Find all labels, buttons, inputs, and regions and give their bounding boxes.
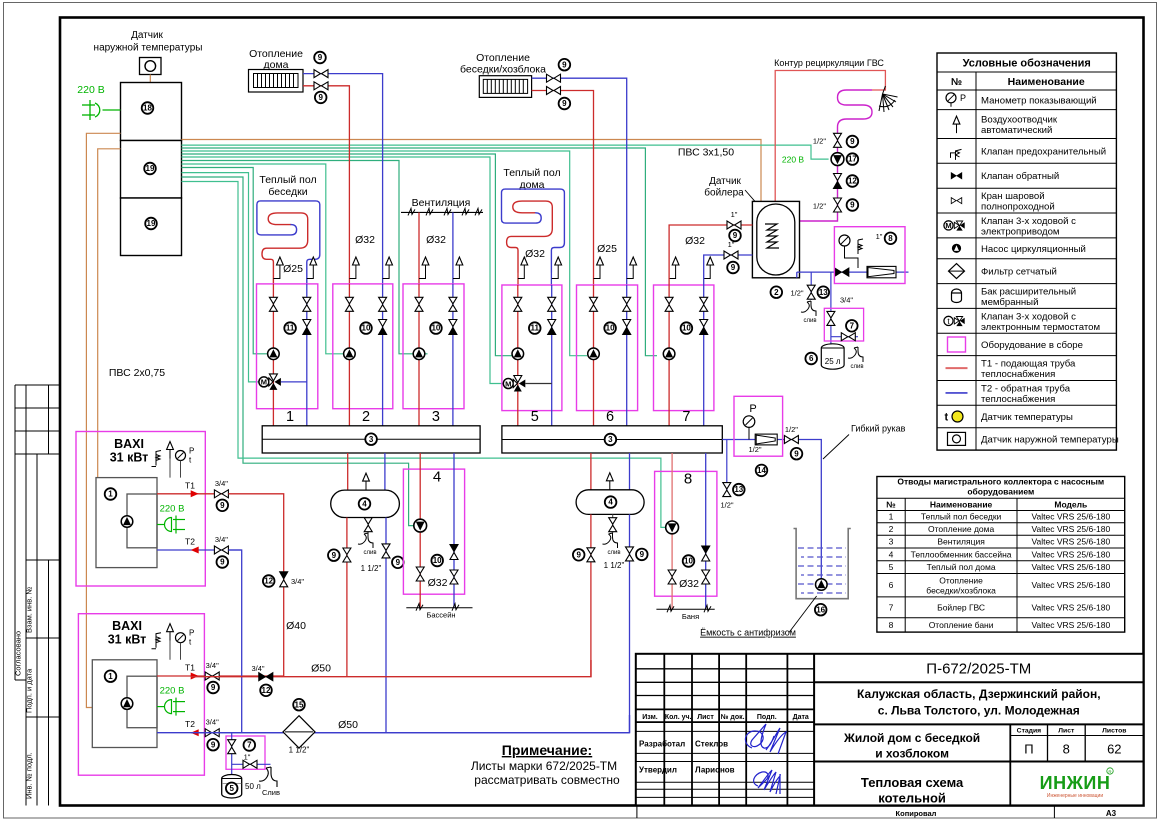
drain stub with valve 13 <box>726 440 728 498</box>
recirc check valve <box>834 174 842 189</box>
right oval return down <box>629 514 631 732</box>
title block stamp headers <box>642 713 809 721</box>
group 3 return valve <box>449 297 457 311</box>
svg-text:Тепловая схема: Тепловая схема <box>861 775 964 790</box>
expansion tank line <box>830 272 832 345</box>
svg-text:6: 6 <box>889 580 894 590</box>
legend sym: клапан 3-х ходовой с термостатом <box>944 316 965 326</box>
right oval supply valve <box>587 548 595 562</box>
recirculation pump <box>831 153 844 166</box>
pos 17 <box>847 153 859 165</box>
svg-text:5: 5 <box>229 784 234 793</box>
svg-text:3: 3 <box>608 435 613 444</box>
svg-text:M: M <box>505 379 511 388</box>
pos 16 <box>815 604 827 616</box>
cable to 3-way valve group 1 <box>182 173 260 382</box>
svg-text:9: 9 <box>211 740 216 749</box>
valve on house radiator supply <box>314 82 328 90</box>
svg-text:3: 3 <box>889 537 894 547</box>
svg-text:беседки: беседки <box>268 186 307 198</box>
svg-text:Насос циркуляционный: Насос циркуляционный <box>981 244 1086 255</box>
legend sym: клапан предохранительный <box>951 149 962 160</box>
svg-text:7: 7 <box>889 602 894 612</box>
svg-text:Ø50: Ø50 <box>311 663 331 675</box>
group 5 3-way valve with M drive <box>503 376 525 392</box>
cable to pump group 8 <box>182 182 667 528</box>
group 7 return pipe <box>703 285 705 426</box>
svg-text:Баня: Баня <box>682 612 699 621</box>
svg-text:Дата: Дата <box>793 714 809 721</box>
pos 12 Ø40 <box>263 575 275 587</box>
svg-text:Valtec VRS 25/6-180: Valtec VRS 25/6-180 <box>1031 580 1110 590</box>
ИНЖИН logo <box>1040 768 1114 799</box>
svg-text:Valtec VRS 25/6-180: Valtec VRS 25/6-180 <box>1031 620 1110 630</box>
BAXI boiler 2 T1 pipe <box>157 675 284 677</box>
BAXI boiler 1 air vent <box>169 459 171 478</box>
svg-text:Фильтр сетчатый: Фильтр сетчатый <box>981 267 1057 278</box>
svg-text:P: P <box>749 403 756 415</box>
legend sym: манометр <box>946 93 966 107</box>
svg-text:7: 7 <box>682 409 690 425</box>
drain symbol (слив) <box>801 301 816 316</box>
BAXI boiler 1 safety valve <box>152 451 162 467</box>
left stamp column grid <box>15 385 60 806</box>
svg-text:Лист: Лист <box>697 714 714 721</box>
antifreeze pump <box>816 579 828 591</box>
cable to pump group 2 <box>182 164 344 354</box>
svg-text:Согласовано: Согласовано <box>14 631 23 676</box>
svg-text:Отопление: Отопление <box>939 576 983 586</box>
svg-text:Слив: Слив <box>262 788 280 797</box>
svg-text:9: 9 <box>640 550 645 559</box>
pos 9 T1 boiler 1 <box>217 500 229 512</box>
group 2 check valve <box>379 320 387 335</box>
svg-text:14: 14 <box>757 466 766 475</box>
svg-text:9: 9 <box>576 550 581 559</box>
svg-text:9: 9 <box>332 551 337 560</box>
cable to pump group 4 <box>182 177 415 526</box>
valve on line to tank <box>784 436 798 444</box>
svg-text:t: t <box>945 412 949 424</box>
svg-text:220 В: 220 В <box>160 686 185 697</box>
svg-text:1 1/2": 1 1/2" <box>289 746 310 755</box>
svg-text:11: 11 <box>286 324 295 333</box>
antifreeze tank <box>794 529 851 599</box>
svg-text:3: 3 <box>369 435 374 444</box>
svg-text:1/2": 1/2" <box>813 202 826 211</box>
svg-text:10: 10 <box>606 324 615 333</box>
svg-text:31 кВт: 31 кВт <box>110 451 149 465</box>
pos 9 house radiator top <box>314 52 326 64</box>
svg-text:№: № <box>886 500 896 510</box>
svg-text:3/4": 3/4" <box>215 479 228 488</box>
svg-text:12: 12 <box>848 177 857 186</box>
recirculation coil (magenta) <box>838 90 873 133</box>
svg-text:Valtec VRS 25/6-180: Valtec VRS 25/6-180 <box>1031 512 1110 522</box>
cable to pump group 5 <box>182 154 512 356</box>
group 7 pump <box>663 348 675 360</box>
orange cable to ГВС boiler sensor <box>182 140 762 202</box>
ПВС 3х1,50 cable to recirculation pump <box>182 145 829 159</box>
pos 10 group 4 <box>431 555 443 567</box>
svg-text:Подп.: Подп. <box>757 714 777 721</box>
pump group 8 box <box>655 471 717 596</box>
floor coil gazebo (blue) <box>257 201 320 284</box>
svg-text:12: 12 <box>264 577 273 586</box>
svg-text:Ø32: Ø32 <box>428 577 448 589</box>
svg-text:электроприводом: электроприводом <box>981 226 1060 237</box>
svg-text:Листов: Листов <box>1102 728 1126 735</box>
pump group 1 box <box>257 284 318 409</box>
svg-text:9: 9 <box>850 137 855 146</box>
pos 5 tank <box>226 783 238 795</box>
legend row names <box>981 95 1119 445</box>
svg-text:3/4": 3/4" <box>291 577 304 586</box>
svg-text:19: 19 <box>147 219 156 228</box>
pos 9 gazebo radiator bottom <box>559 98 571 110</box>
pos 9 left oval return <box>392 557 404 569</box>
gauge P <box>743 403 756 440</box>
pump group 3 box <box>403 284 464 409</box>
svg-text:9: 9 <box>220 558 225 567</box>
recirc valve 1/2 bottom <box>834 198 842 212</box>
shower head <box>879 86 898 112</box>
drain assembly box <box>226 736 265 769</box>
pos 6 tank <box>805 353 817 365</box>
pos 9 recirc top <box>847 136 859 148</box>
svg-text:T1: T1 <box>185 480 195 490</box>
left oval drain <box>367 518 369 534</box>
pos 7 drain assembly <box>244 739 256 751</box>
svg-text:Клапан обратный: Клапан обратный <box>981 171 1059 182</box>
svg-text:1/2": 1/2" <box>790 289 803 298</box>
BAXI boiler 2 plug <box>157 698 185 716</box>
group 2 supply valve <box>345 297 353 311</box>
svg-text:Оборудование в сборе: Оборудование в сборе <box>981 340 1083 351</box>
group 6 return valve <box>623 297 631 311</box>
group 6 check valve <box>623 320 631 335</box>
svg-text:Контур рециркуляции ГВС: Контур рециркуляции ГВС <box>774 58 884 68</box>
radiator gazebo heating <box>479 76 531 98</box>
svg-text:9: 9 <box>220 501 225 510</box>
legend sym: воздухоотводчик <box>953 116 960 133</box>
svg-text:1: 1 <box>108 490 113 499</box>
group 7 return valve <box>700 297 708 311</box>
svg-text:5: 5 <box>889 562 894 572</box>
pos 13 drain <box>818 286 830 298</box>
svg-text:Инженерные инновации: Инженерные инновации <box>1047 793 1103 799</box>
pos 9 house radiator bottom <box>315 92 327 104</box>
svg-text:Ø25: Ø25 <box>283 263 303 275</box>
recirculation drop pipe (magenta) <box>800 133 838 221</box>
legend sym: оборудование в сборе <box>948 337 966 352</box>
svg-text:Датчик наружной температуры: Датчик наружной температуры <box>981 434 1119 445</box>
svg-text:рассматривать совместно: рассматривать совместно <box>474 773 620 787</box>
legend sym: T2 line <box>946 392 968 394</box>
svg-text:Копировал: Копировал <box>896 809 937 818</box>
cable to pump group 3 <box>182 161 428 354</box>
controller pos 19 <box>144 163 156 175</box>
svg-text:ПВС 3х1,50: ПВС 3х1,50 <box>678 147 734 159</box>
boiler return pipe to group 7 <box>704 255 753 285</box>
svg-text:12: 12 <box>262 686 271 695</box>
svg-text:Теплый пол беседки: Теплый пол беседки <box>921 512 1002 522</box>
pump group 2 box <box>333 284 393 409</box>
pos 8 <box>885 233 897 245</box>
collector table rows <box>889 512 1111 630</box>
group 3 pump <box>413 348 425 360</box>
svg-text:Т2 - обратная труба: Т2 - обратная труба <box>981 383 1071 394</box>
check valve on cold water <box>835 268 849 276</box>
svg-text:10: 10 <box>362 324 371 333</box>
venturi filter on collector end line <box>755 434 777 445</box>
cable to pump group 6 <box>182 151 588 356</box>
svg-text:220 В: 220 В <box>782 155 805 165</box>
svg-text:Отопление бани: Отопление бани <box>929 620 994 630</box>
legend table grid <box>937 53 1116 450</box>
boiler return valve 1 inch <box>724 251 738 259</box>
left oval supply valve <box>343 548 351 562</box>
svg-text:Отопление: Отопление <box>476 52 530 64</box>
BAXI boiler 2 safety valve <box>152 633 162 649</box>
svg-text:Бак расширительный: Бак расширительный <box>981 287 1076 298</box>
svg-text:T1: T1 <box>185 663 195 673</box>
legend sym: клапан обратный <box>951 173 962 179</box>
svg-text:Ø32: Ø32 <box>355 234 375 246</box>
group 6 pos label <box>604 322 616 334</box>
pos 10 group 8 <box>683 555 695 567</box>
group 2 return pipe <box>382 284 384 426</box>
group 8 check valve <box>702 546 710 561</box>
svg-text:9: 9 <box>562 99 567 108</box>
group 6 pump <box>588 348 600 360</box>
svg-text:11: 11 <box>531 324 540 333</box>
group 4 pump <box>414 519 427 532</box>
right oval supply from manifold <box>590 453 592 490</box>
pos 7 small box <box>846 320 858 332</box>
svg-text:Valtec VRS 25/6-180: Valtec VRS 25/6-180 <box>1031 537 1110 547</box>
svg-text:Примечание:: Примечание: <box>502 742 592 758</box>
pos 9 T2 boiler 1 <box>217 556 229 568</box>
svg-text:P: P <box>189 629 194 638</box>
group 3 supply pipe <box>418 284 420 426</box>
svg-text:25 л: 25 л <box>825 357 841 366</box>
orange cable to BAXI boiler 2 <box>86 133 120 707</box>
BAXI boiler 1 plug <box>157 516 185 534</box>
pos 13 stub <box>733 484 745 496</box>
small box drain valve <box>831 336 858 338</box>
group 5 return pipe <box>551 285 553 426</box>
legend sym: T1 line <box>946 367 968 369</box>
svg-text:6: 6 <box>606 409 614 425</box>
group 4 return valve <box>450 570 458 584</box>
floor coil house (blue) <box>502 189 565 272</box>
svg-text:Разработал: Разработал <box>639 740 685 749</box>
svg-text:3/4": 3/4" <box>206 718 219 727</box>
svg-text:бойлера: бойлера <box>704 187 744 199</box>
svg-text:Жилой дом с беседкой: Жилой дом с беседкой <box>843 731 980 745</box>
svg-text:№ док.: № док. <box>721 713 745 721</box>
right manifold pos 3 <box>605 434 617 446</box>
svg-text:Клапан 3-х ходовой с: Клапан 3-х ходовой с <box>981 216 1076 227</box>
svg-text:Воздухоотводчик: Воздухоотводчик <box>981 115 1058 126</box>
svg-text:9: 9 <box>794 449 799 458</box>
svg-text:слив: слив <box>363 550 376 556</box>
pump group 6 box <box>577 285 638 411</box>
BAXI boiler 1 T1 valve 3/4 <box>214 490 228 498</box>
right oval drain <box>612 514 614 533</box>
svg-text:слив: слив <box>607 550 620 556</box>
group 3 check valve <box>449 320 457 335</box>
pos 2 boiler <box>771 286 783 298</box>
group 7 pos label <box>681 322 693 334</box>
svg-text:M: M <box>261 378 267 387</box>
svg-text:8: 8 <box>889 620 894 630</box>
radiator house heating <box>249 70 304 93</box>
BAXI boiler 1 T2 valve 3/4 <box>214 546 228 554</box>
svg-text:Наименование: Наименование <box>930 500 993 510</box>
drain stub on cold water <box>810 272 812 300</box>
svg-text:13: 13 <box>819 288 828 297</box>
svg-text:19: 19 <box>146 164 155 173</box>
pos 12 recirc <box>847 175 859 187</box>
svg-text:Бойлер ГВС: Бойлер ГВС <box>937 602 985 612</box>
group 1 3-way valve with M drive <box>259 374 281 390</box>
legend sym: датчик наружной температуры <box>948 432 966 445</box>
collector table grid <box>877 477 1125 633</box>
pump group 7 box <box>654 285 714 411</box>
svg-text:Инв. № подл.: Инв. № подл. <box>25 752 34 799</box>
group 2 air vents <box>349 274 389 279</box>
svg-text:Valtec VRS 25/6-180: Valtec VRS 25/6-180 <box>1031 562 1110 572</box>
group 2 pos label <box>360 322 372 334</box>
svg-text:Ø40: Ø40 <box>286 620 306 632</box>
svg-text:9: 9 <box>731 263 736 272</box>
controller unit (3 sections) <box>121 83 182 256</box>
legend sym: клапан 3-х ходовой с электроприводом <box>944 221 965 231</box>
group 8 return valve <box>702 570 710 584</box>
group 5 pump <box>512 348 524 360</box>
svg-text:9: 9 <box>850 201 855 210</box>
group 7 supply pipe <box>668 285 670 426</box>
pos 9 T2 boiler 2 <box>207 739 219 751</box>
group 5 bypass link <box>525 383 551 385</box>
svg-text:Ø32: Ø32 <box>525 248 545 260</box>
svg-text:3: 3 <box>432 409 440 425</box>
cable to 3-way valve group 5 <box>182 157 504 384</box>
svg-text:1/2": 1/2" <box>785 425 798 434</box>
BAXI boiler 1 gauge P t <box>176 447 195 478</box>
safety valve symbol <box>858 239 863 254</box>
pos 15 filter <box>293 699 305 711</box>
group 8 pump <box>666 521 679 534</box>
svg-text:7: 7 <box>247 741 252 750</box>
svg-text:Ларионов: Ларионов <box>695 766 735 775</box>
svg-text:Кол. уч.: Кол. уч. <box>665 714 692 721</box>
group 1 supply valve <box>269 297 277 311</box>
outdoor temperature sensor <box>140 58 162 75</box>
group 8 supply pipe <box>671 453 673 609</box>
expansion tank valve <box>827 311 835 325</box>
BAXI boiler 1 T2 pipe <box>157 549 242 551</box>
group 5 supply valve <box>514 297 522 311</box>
svg-text:T2: T2 <box>185 719 195 729</box>
main return line Ø50 <box>191 715 630 733</box>
pressure gauge box <box>734 396 783 456</box>
svg-text:1 1/2": 1 1/2" <box>604 561 625 570</box>
svg-text:слив: слив <box>803 318 816 324</box>
svg-text:5: 5 <box>531 409 539 425</box>
pos 4 left oval <box>359 498 371 510</box>
svg-text:17: 17 <box>848 155 857 164</box>
group 3 air vents <box>419 274 459 279</box>
svg-text:4: 4 <box>433 469 441 486</box>
ventilation duct line <box>401 211 483 213</box>
svg-text:Вентиляция: Вентиляция <box>937 537 985 547</box>
svg-text:Лист: Лист <box>1058 728 1075 735</box>
svg-text:Датчик температуры: Датчик температуры <box>981 412 1073 423</box>
svg-text:Теплообменник бассейна: Теплообменник бассейна <box>911 549 1012 559</box>
svg-text:Ø32: Ø32 <box>685 235 705 247</box>
svg-text:Стадия: Стадия <box>1017 728 1042 735</box>
collector end line to antifreeze tank <box>722 440 821 579</box>
group 4 supply valve <box>416 567 424 581</box>
sensor cable (orange) <box>149 75 151 83</box>
svg-text:8: 8 <box>684 471 692 488</box>
svg-text:50 л: 50 л <box>245 782 261 791</box>
svg-text:1 1/2": 1 1/2" <box>361 564 382 573</box>
group 7 air vents <box>669 274 710 279</box>
pos 9 right oval return <box>636 549 648 561</box>
group 2 pump <box>344 348 356 360</box>
left oval return down <box>385 518 387 733</box>
svg-text:4: 4 <box>889 549 894 559</box>
svg-text:Клапан предохранительный: Клапан предохранительный <box>981 146 1106 157</box>
svg-text:9: 9 <box>211 683 216 692</box>
svg-text:П: П <box>1024 742 1033 757</box>
svg-text:10: 10 <box>433 556 442 565</box>
svg-text:П-672/2025-ТМ: П-672/2025-ТМ <box>926 661 1031 678</box>
controller pos 18 <box>142 102 154 114</box>
valve on gazebo radiator supply <box>547 87 561 95</box>
BAXI boiler 2 air vent <box>169 641 171 660</box>
svg-text:18: 18 <box>143 104 152 113</box>
filter on return <box>283 716 315 748</box>
drain assembly valve <box>228 740 236 754</box>
legend sym: фильтр <box>949 264 965 279</box>
valve on house radiator return <box>314 70 328 78</box>
svg-text:полнопроходной: полнопроходной <box>981 202 1055 213</box>
BAXI boiler 2 T2 pipe <box>157 732 630 734</box>
group 5 check valve <box>548 320 556 335</box>
svg-text:7: 7 <box>850 321 855 330</box>
left oval return from manifold <box>384 453 386 490</box>
svg-text:наружной температуры: наружной температуры <box>94 43 203 54</box>
pos 9 gazebo radiator top <box>559 59 571 71</box>
svg-text:Условные обозначения: Условные обозначения <box>963 58 1091 70</box>
svg-text:T2: T2 <box>185 537 195 547</box>
recirculation supply (red) <box>775 71 885 202</box>
svg-text:8: 8 <box>1063 742 1070 757</box>
pos 9 boiler return <box>727 262 739 274</box>
Баня symbol <box>656 608 714 610</box>
filter (venturi) on cold water <box>867 266 896 277</box>
group 6 supply pipe <box>593 285 595 426</box>
svg-text:16: 16 <box>816 605 825 614</box>
BAXI boiler 2 box <box>78 614 204 776</box>
group 1 return valve <box>303 297 311 311</box>
svg-text:Отопление дома: Отопление дома <box>928 524 994 534</box>
